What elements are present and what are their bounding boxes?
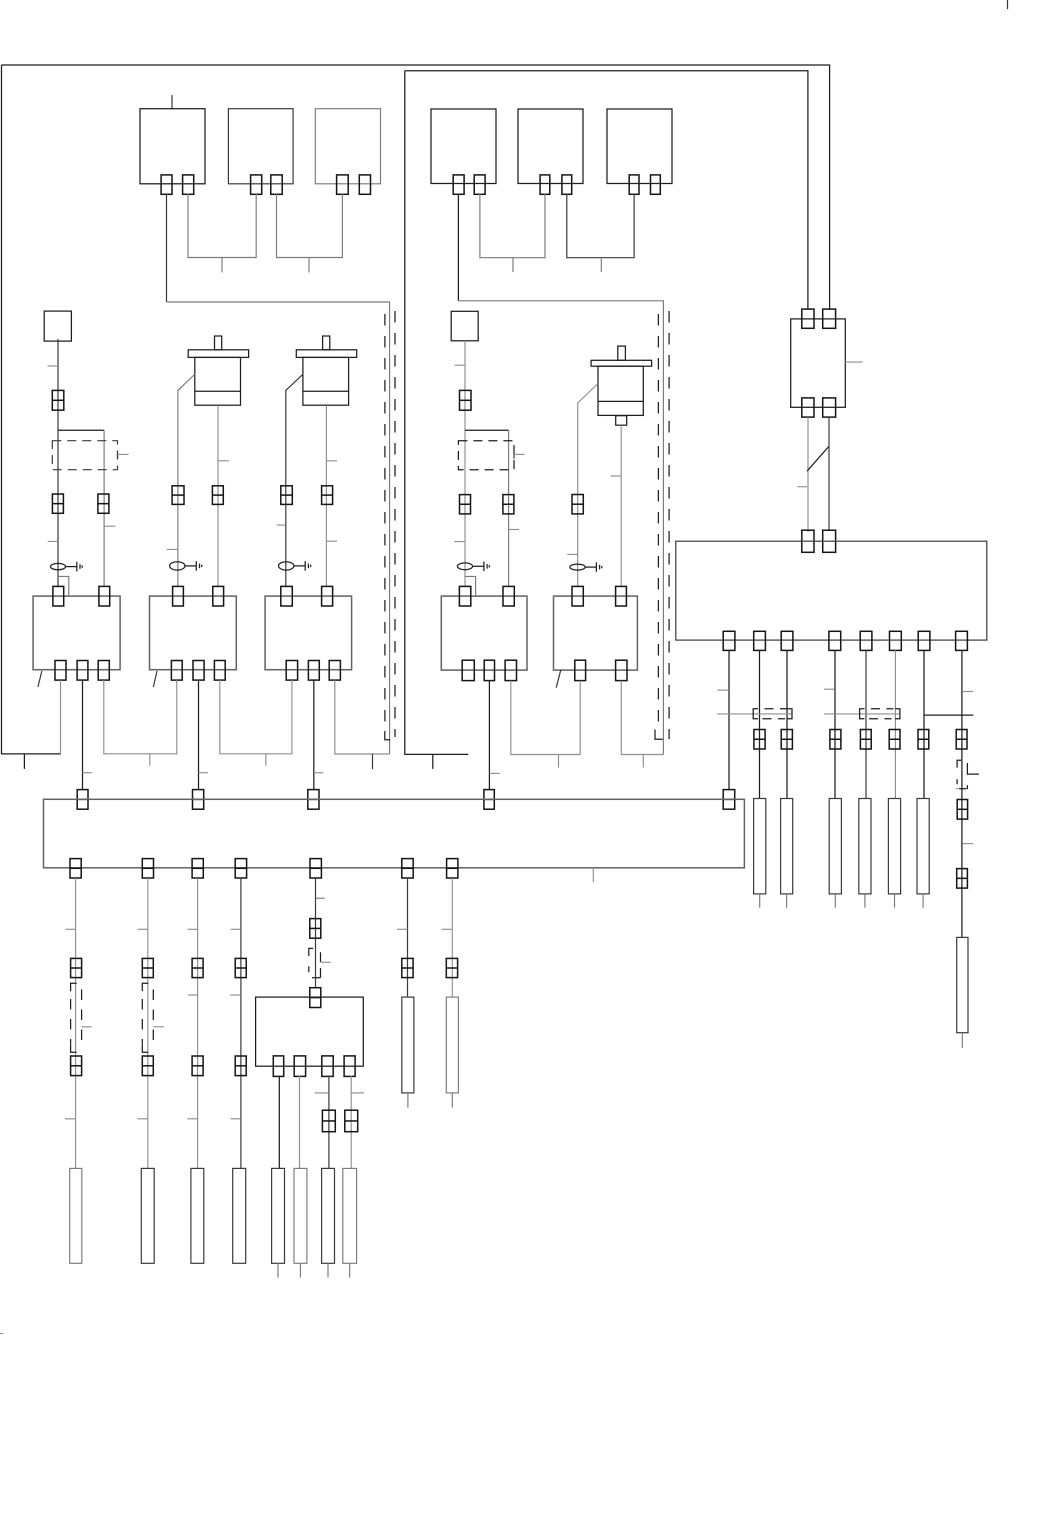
control unit U1 (main box) (676, 541, 987, 640)
wire col3 tick 1 (188, 928, 198, 930)
driver B2 top pin 2 (616, 586, 627, 606)
wire K1.3 to main box (807, 417, 809, 532)
wire U1.6 down (894, 650, 896, 798)
connector inline C6 (889, 730, 900, 750)
lamp element L5 (402, 997, 414, 1093)
wire U1.3 down (786, 650, 788, 798)
driver A2 index slash (153, 671, 157, 687)
wire F1.2 to F2.1 link (188, 194, 256, 258)
motor M3 (591, 346, 652, 425)
wire rail B right side (458, 301, 663, 755)
connector C23 (345, 1110, 358, 1132)
wire harness-B left return border (405, 71, 469, 755)
lamp element L1 (70, 1168, 82, 1263)
lamp element L7 (272, 1168, 285, 1263)
wire col3 tick 2 (188, 994, 198, 996)
wire U1.8 down (961, 650, 963, 937)
wire A2.b2 to bus (198, 680, 200, 790)
page registration tick top-right (1007, 0, 1009, 9)
driver B2 index slash (556, 670, 561, 688)
fuse F6 pin 1 (629, 175, 639, 194)
wire M2 lead2 tick 2 (327, 540, 337, 542)
control unit U1 pin 2 (754, 631, 766, 650)
wire R2 tail (759, 894, 761, 908)
lamp element L2 (141, 1168, 154, 1263)
connector main box top pin 2 (823, 530, 836, 552)
wire U2.1 down (278, 1076, 280, 1169)
wire M2 lead 1 (286, 374, 303, 587)
control unit U2 (256, 997, 364, 1066)
fuse F5 pin 1 (540, 175, 550, 194)
connector C22 (322, 1110, 335, 1132)
control unit U1 pin 7 (918, 631, 930, 650)
wire M1 lead 1 (178, 374, 195, 587)
wire N1 tick 2 (48, 540, 58, 542)
connector inline C2 (754, 730, 765, 750)
driver B1 bottom pin 2 (484, 660, 494, 680)
driver unit A3 (265, 596, 352, 670)
connector col1 C12 (71, 1056, 82, 1076)
wire A1.b2 to bus (82, 680, 84, 790)
connector col7 C21 (446, 958, 457, 977)
wire K1.4 to switch (828, 417, 830, 531)
wire L8 tail (299, 1263, 301, 1277)
connector inline C4 (830, 730, 841, 750)
fuse box F3 (315, 109, 380, 184)
connector inline C8c (957, 869, 968, 889)
motor M2 (296, 336, 356, 405)
wire M3 lead 2 (620, 425, 622, 587)
wire A1.b2 tick (83, 772, 92, 774)
connector J1c (98, 494, 109, 513)
wire harness-A top feed from fuse F1 to relay K1 pin 2 (2, 65, 830, 309)
resistor ladder R6 (888, 799, 900, 894)
connector bus top J9 (484, 790, 494, 810)
ground shield G2 (170, 561, 202, 571)
motor M1 (188, 336, 248, 405)
relay K1 pin 2 (823, 309, 836, 328)
harness A shield rail 1 (dashed) (385, 314, 390, 740)
node A1 junction stub (23, 754, 25, 769)
driver B2 top pin 1 (572, 586, 583, 606)
wire N2 tick (455, 364, 466, 366)
driver A2 top pin 2 (213, 586, 224, 606)
fuse F6 pin 2 (651, 175, 661, 194)
U2 pin 4 (344, 1056, 355, 1077)
node stub A4 (265, 754, 267, 766)
driver unit B1 (441, 596, 527, 670)
fuse F4 pin 1 (453, 175, 464, 194)
driver unit B2 (554, 596, 638, 670)
driver A2 bottom pin 3 (214, 661, 225, 681)
driver A3 bottom pin 1 (286, 661, 297, 681)
wire A2.b2 tick (199, 772, 209, 774)
wire M2 lead1 tick (277, 524, 286, 526)
driver A1 bottom pin 2 (77, 661, 88, 681)
wire R7 tail (922, 894, 924, 908)
sensor node N2 (451, 311, 478, 341)
wire U1.7 down (923, 650, 925, 798)
wire R5 tail (864, 894, 866, 908)
relay K1 coil tick (845, 361, 862, 363)
driver A3 bottom pin 2 (308, 661, 319, 681)
wire A3.b3 to rail (335, 680, 390, 754)
driver B1 top pin 1 (459, 586, 470, 606)
connector M2 J3b (322, 486, 333, 505)
connector J1b (52, 494, 63, 513)
lamp element L3 (191, 1168, 204, 1263)
wire U1.7 to U1.8 link (924, 714, 974, 716)
ground shield G5 (570, 562, 602, 572)
wire U1.5 down (865, 650, 867, 798)
wire N1 branch (58, 430, 104, 587)
wire F5.2 to F6.1 link (567, 194, 634, 258)
wire F2.2 to F3.1 link (277, 194, 343, 258)
resistor ladder R2 (754, 799, 766, 894)
wire B2.b2 to rail (621, 681, 663, 755)
node link stub A2 (308, 258, 310, 273)
fuse F3 pin 2 (359, 175, 370, 194)
wire column 7 (451, 878, 453, 997)
wire rail A right side (167, 302, 390, 754)
fuse box F1 (140, 95, 205, 184)
junction block bus bar (44, 799, 745, 868)
driver A1 top pin 2 (99, 586, 110, 606)
control unit U1 pin 8 (956, 631, 968, 650)
wire M3 lead 1 (578, 384, 598, 588)
wire U1.8 tick lower (962, 843, 973, 845)
wire col2 tick 1 (138, 928, 148, 930)
node B1 junction stub (432, 754, 434, 769)
wire N2 down (464, 341, 466, 587)
col2 sleeve tick (153, 1026, 164, 1028)
lamp element L4 (233, 1168, 246, 1263)
ground shield G4 (457, 562, 489, 572)
connector box U2 top pin (310, 988, 321, 1008)
driver B1 bottom pin 1 (462, 660, 474, 680)
wire col4 tick 1 (231, 928, 241, 930)
node link stub B1 (512, 258, 514, 272)
connector col2 C14 (142, 1056, 153, 1076)
connector col5 C19 (310, 919, 321, 939)
wire harness-B top feed to relay K1 pin 1 (405, 71, 808, 309)
shield break (dashed) col5 (309, 948, 321, 977)
wire col5 tick (316, 897, 325, 899)
wire U1.4 tick (824, 688, 834, 690)
driver A1 top pin 1 (53, 586, 64, 606)
connector col3 C16 (192, 1056, 203, 1076)
connector J4c (503, 495, 514, 514)
lamp element L9 (322, 1168, 335, 1263)
node link stub B2 (600, 258, 602, 272)
wire U2.3 tick (315, 1092, 329, 1094)
connector col1 C11 (71, 958, 82, 977)
fuse F4 pin 2 (474, 175, 485, 194)
harness A shield rail 2 (dashed) (394, 311, 396, 737)
col1 sleeve tick (82, 1026, 92, 1028)
connector bus bottom J15 (402, 859, 413, 878)
resistor ladder R8 (957, 937, 968, 1032)
wire U2.2 down (299, 1076, 301, 1169)
page registration tick left (0, 1333, 3, 1335)
resistor ladder R7 (917, 799, 929, 894)
fuse F1 pin 1 (161, 175, 172, 194)
wire column 6 (407, 878, 409, 997)
connector bus bottom J14 (310, 859, 321, 878)
connector col3 C15 (192, 958, 203, 977)
wire A1.b1 to border (60, 680, 62, 754)
driver A3 bottom pin 3 (329, 661, 340, 681)
relay K1 pin 1 (802, 309, 814, 328)
wire L6 tail (451, 1093, 453, 1108)
connector J4b (460, 495, 471, 514)
wire U2.4 tick (351, 1092, 364, 1094)
connector bus bottom J16 (447, 859, 458, 878)
wire F1.1 to rail (166, 194, 168, 302)
driver A2 bottom pin 2 (193, 661, 204, 681)
control unit U1 pin 4 (829, 631, 841, 650)
resistor ladder R4 (829, 799, 841, 894)
wire B1.b2 to bus (488, 681, 490, 790)
wire L9 tail (327, 1263, 329, 1277)
wire F4.1 down (457, 194, 459, 301)
connector J4a (460, 390, 472, 410)
wire col1 tick 2 (65, 1118, 76, 1120)
driver A1 index slash (38, 671, 42, 687)
wire harness-A left ground return border (2, 65, 62, 754)
relay K1 pin 3 (802, 398, 814, 417)
wire lamp column 2 (147, 878, 149, 1168)
bus stub down (592, 868, 594, 882)
wire L5 tail (407, 1093, 409, 1108)
shield sleeve (dashed) col2 (142, 983, 153, 1052)
node stub B4 (642, 755, 644, 768)
shield sleeve (dashed) col1 (71, 983, 82, 1052)
ground shield G3 (279, 561, 311, 571)
wire N2 branch tick (509, 529, 519, 531)
wire N2 tick 2 (454, 541, 465, 543)
wire R6 tail (894, 894, 896, 908)
fuse F2 pin 2 (271, 175, 282, 194)
option D2 tick (514, 451, 525, 459)
wire L10 tail (349, 1263, 351, 1277)
wire M2 lead2 tick 1 (327, 460, 337, 462)
connector J1a (52, 390, 64, 410)
driver unit A1 (33, 596, 120, 670)
wire col3 tick 3 (187, 1118, 197, 1120)
resistor ladder R3 (781, 799, 793, 894)
wire U2.3 down (328, 1076, 330, 1169)
wire col1 tick 1 (66, 928, 76, 930)
option enclosure (dashed) D1 (52, 441, 117, 470)
U2 pin 1 (273, 1056, 283, 1077)
node stub B3 (558, 755, 560, 768)
driver B2 bottom pin 1 (575, 660, 586, 680)
driver B1 bottom pin 3 (505, 660, 516, 680)
U2 pin 2 (294, 1056, 305, 1077)
connector inline C3 (781, 730, 792, 750)
wire U1.2 down (759, 650, 761, 798)
fuse F1 pin 2 (183, 175, 194, 194)
wire N1 tick (48, 365, 59, 367)
driver A2 bottom pin 1 (171, 661, 182, 681)
wire L7 tail (277, 1263, 279, 1277)
shield break marks (dashed) at C8 (957, 760, 979, 789)
connector inline C8b (957, 800, 967, 820)
driver A1 bottom pin 3 (98, 661, 109, 681)
harness B shield rail 2 (dashed) (668, 311, 670, 739)
connector col2 C13 (142, 958, 153, 977)
wire branch tick (104, 525, 115, 527)
wire M3 lead2 tick (611, 475, 622, 477)
node link stub A1 (221, 258, 223, 273)
fuse box F4 (431, 109, 496, 184)
wire A3.b2 to bus (313, 680, 315, 790)
wire A3.b2 tick (314, 772, 323, 774)
wire A1.b3 to A2.b1 link (104, 680, 177, 754)
connector col4 C17 (235, 958, 246, 977)
option D1 tick (118, 451, 129, 459)
wire col6 tick (397, 928, 408, 930)
switch SW1 tick (797, 486, 807, 488)
node stub A5 (372, 754, 374, 769)
connector col6 C20 (402, 958, 413, 977)
wire U1.8 tick upper (962, 691, 973, 693)
connector inline C7 (918, 730, 929, 750)
lamp element L6 (446, 997, 458, 1093)
lamp element L10 (343, 1168, 357, 1263)
wire R4 tail (834, 894, 836, 908)
driver A2 top pin 1 (173, 586, 184, 606)
control unit U1 pin 6 (890, 631, 902, 650)
U2 pin 3 (322, 1056, 333, 1077)
wire shield branch B (465, 576, 476, 596)
sensor node N1 (44, 311, 71, 341)
fuse F2 pin 1 (251, 175, 262, 194)
node stub A3 (149, 754, 151, 766)
connector bus top J8 (308, 790, 319, 810)
wire M3 lead1 tick (567, 553, 577, 555)
wire lamp column 1 (75, 878, 77, 1168)
wire M1 lead 2 (217, 405, 219, 587)
col5 break tick (321, 961, 331, 963)
connector M2 J3a (281, 486, 293, 505)
wire N1 down (57, 339, 59, 587)
fuse box F6 (607, 109, 672, 184)
wire U1.1 to bus (728, 650, 730, 789)
driver unit A2 (150, 596, 237, 670)
switch SW1 blade (807, 447, 829, 472)
connector bus top J5 (723, 790, 735, 810)
fuse F3 pin 1 (337, 175, 349, 194)
connector bus top J6 (77, 790, 88, 810)
wire col2 tick 2 (137, 1118, 147, 1120)
wire U2.4 down (350, 1076, 352, 1169)
wire B1.b2 tick (489, 772, 500, 774)
connector inline C5 (860, 730, 871, 750)
wire M1 lead1 tick (167, 548, 179, 550)
wire F4.2 to F5.1 link (480, 194, 545, 258)
wire U1.4 down (834, 650, 836, 798)
connector main box top pin 1 (802, 530, 814, 552)
wire lamp column 4 (240, 878, 242, 1168)
wire B1.b3 to B2.b1 link (511, 681, 580, 755)
wire U1.1 tick (717, 689, 729, 691)
wire relay column 5 (315, 878, 317, 988)
wire shield branch (58, 576, 69, 596)
driver A1 bottom pin 1 (55, 661, 66, 681)
wire col7 tick (442, 928, 453, 930)
connector bus top J7 (193, 790, 204, 810)
resistor ladder R5 (859, 799, 871, 894)
wire R8 tail (961, 1033, 963, 1048)
harness B shield rail 1 (dashed) (655, 314, 663, 739)
wire N2 branch (465, 430, 509, 587)
ground shield G1 (51, 562, 83, 572)
driver B1 top pin 2 (503, 586, 514, 606)
connector bus bottom J13 (235, 859, 246, 878)
wire lamp column 3 (197, 878, 199, 1168)
connector M3 J5a (572, 495, 583, 514)
wire R3 tail (786, 894, 788, 908)
fuse box F2 (228, 109, 293, 184)
control unit U1 pin 3 (781, 631, 793, 650)
connector M1 J2b (212, 486, 223, 505)
driver B2 bottom pin 2 (616, 660, 627, 680)
splice bar S1 (gray) with dashed connector shell (717, 709, 792, 719)
lamp element L8 (294, 1168, 307, 1263)
wire col4 tick 2 (230, 994, 240, 996)
wire A2.b3 to A3.b1 link (220, 680, 292, 754)
connector bus bottom J11 (142, 859, 153, 878)
driver A3 top pin 1 (281, 586, 293, 606)
relay K1 pin 4 (823, 398, 836, 417)
driver A3 top pin 2 (322, 586, 333, 606)
fuse box F5 (518, 109, 583, 184)
fuse F5 pin 2 (562, 175, 572, 194)
wire col4 tick 3 (230, 1118, 241, 1120)
connector col4 C18 (235, 1056, 246, 1076)
connector bus bottom J10 (70, 859, 81, 878)
option enclosure (dashed) D2 (458, 441, 514, 470)
control unit U1 pin 5 (860, 631, 872, 650)
connector inline C8a (956, 730, 967, 750)
control unit U1 pin 1 (723, 631, 735, 650)
wire M1 lead2 tick 1 (219, 460, 230, 462)
relay K1 (791, 319, 846, 407)
connector bus bottom J12 (192, 859, 203, 878)
connector M1 J2a (172, 486, 184, 505)
splice bar S2 (gray) with dashed connector shell (824, 709, 900, 719)
wire M2 lead 2 (325, 405, 327, 587)
